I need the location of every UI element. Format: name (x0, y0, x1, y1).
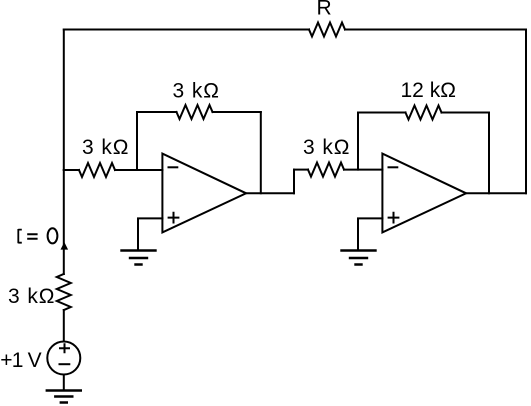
wire right vertical (525, 30, 527, 194)
op-amp U2 plus sign (389, 213, 399, 223)
svg-text:3 kΩ: 3 kΩ (303, 136, 350, 159)
wire resistor to source (63, 310, 65, 342)
wire feedback top right segment (213, 111, 261, 113)
wire feedback top left U2 (358, 112, 406, 114)
op-amp U2 minus sign (389, 166, 398, 168)
voltage source V1 circle (47, 342, 80, 375)
ground G3 (47, 391, 81, 403)
wire U1 noninverting input (138, 218, 162, 249)
label I = 0 (18, 228, 57, 243)
resistor R1 3k input (79, 163, 115, 177)
wire resistor to U2 inverting input (344, 169, 382, 171)
svg-text:3 kΩ: 3 kΩ (82, 136, 129, 159)
wire input node to resistor (64, 169, 79, 171)
voltage source plus sign (60, 344, 69, 352)
wire top-right horizontal (345, 29, 526, 31)
wire left vertical upper (63, 30, 65, 171)
resistor R3 3k vertical (57, 274, 71, 310)
wire U1 output (246, 192, 294, 194)
svg-text:12 kΩ: 12 kΩ (401, 79, 456, 102)
svg-text:3 kΩ: 3 kΩ (173, 80, 220, 103)
op-amp U1 plus sign (169, 213, 179, 223)
wire feedback riser left (136, 112, 138, 170)
svg-text:3 kΩ: 3 kΩ (8, 285, 55, 308)
wire left vertical to resistor (63, 170, 65, 274)
ground G2 (342, 251, 376, 265)
wire U2 output (466, 192, 526, 194)
wire step up (293, 170, 295, 194)
resistor R5 12k feedback (406, 106, 442, 120)
op-amp U2 (382, 154, 466, 233)
wire feedback top right U2 (442, 112, 490, 114)
voltage source minus sign (60, 363, 70, 365)
wire source to ground (63, 375, 65, 390)
wire feedback down U2 (488, 113, 490, 194)
wire top-left horizontal (64, 29, 309, 31)
wire feedback down to output (260, 112, 262, 193)
resistor R (309, 23, 345, 37)
op-amp U1 (162, 154, 246, 233)
op-amp U1 minus sign (169, 166, 178, 168)
resistor R4 3k interstage (308, 163, 344, 177)
wire resistor to op-amp inverting input (115, 169, 162, 171)
wire to interstage resistor (294, 169, 308, 171)
ground G1 (122, 251, 156, 265)
resistor R2 3k feedback (177, 105, 213, 119)
current arrow I=0 (61, 242, 69, 250)
wire feedback riser U2 (357, 113, 359, 170)
wire feedback top left segment (137, 111, 177, 113)
svg-text:+1 V: +1 V (0, 349, 41, 372)
svg-text:R: R (317, 0, 332, 20)
wire U2 noninverting input (358, 218, 382, 249)
